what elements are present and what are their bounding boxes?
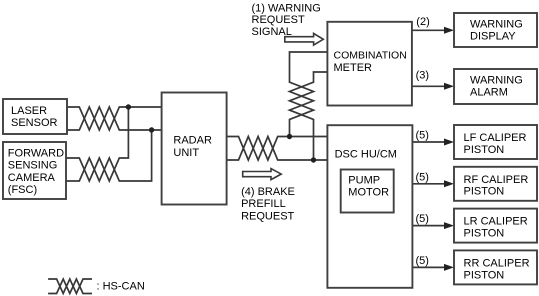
svg-text:LF CALIPER: LF CALIPER — [464, 132, 527, 144]
svg-text:RF CALIPER: RF CALIPER — [464, 174, 529, 186]
svg-text:ALARM: ALARM — [470, 87, 508, 99]
svg-text:DSC HU/CM: DSC HU/CM — [335, 149, 397, 161]
svg-text:RR CALIPER: RR CALIPER — [464, 258, 530, 270]
svg-text:MOTOR: MOTOR — [348, 187, 389, 199]
svg-text:(3): (3) — [416, 70, 429, 82]
svg-text:(FSC): (FSC) — [8, 184, 37, 196]
svg-text:UNIT: UNIT — [173, 147, 199, 159]
svg-text:SIGNAL: SIGNAL — [252, 26, 292, 38]
svg-text:(5): (5) — [416, 213, 429, 225]
svg-text:PISTON: PISTON — [464, 228, 505, 240]
svg-text:LR CALIPER: LR CALIPER — [464, 216, 528, 228]
svg-text:(5): (5) — [416, 255, 429, 267]
svg-text:: HS-CAN: : HS-CAN — [97, 280, 145, 292]
svg-text:PISTON: PISTON — [464, 144, 505, 156]
svg-text:FORWARD: FORWARD — [8, 148, 64, 160]
svg-text:CAMERA: CAMERA — [8, 172, 56, 184]
svg-text:(1) WARNING: (1) WARNING — [252, 2, 321, 14]
svg-text:RADAR: RADAR — [173, 135, 212, 147]
svg-text:REQUEST: REQUEST — [241, 210, 294, 222]
svg-text:(5): (5) — [416, 130, 429, 142]
svg-text:LASER: LASER — [11, 105, 47, 117]
svg-text:SENSOR: SENSOR — [11, 117, 58, 129]
svg-text:PREFILL: PREFILL — [241, 198, 286, 210]
svg-text:WARNING: WARNING — [470, 18, 523, 30]
svg-text:SENSING: SENSING — [8, 160, 58, 172]
svg-text:(4) BRAKE: (4) BRAKE — [241, 186, 295, 198]
svg-text:WARNING: WARNING — [470, 74, 523, 86]
svg-text:REQUEST: REQUEST — [252, 14, 305, 26]
svg-text:(2): (2) — [416, 16, 429, 28]
svg-text:PUMP: PUMP — [348, 175, 380, 187]
svg-text:PISTON: PISTON — [464, 186, 505, 198]
svg-text:(5): (5) — [416, 171, 429, 183]
svg-text:METER: METER — [334, 62, 373, 74]
svg-text:COMBINATION: COMBINATION — [334, 49, 407, 61]
svg-text:DISPLAY: DISPLAY — [470, 31, 516, 43]
svg-text:PISTON: PISTON — [464, 269, 505, 281]
